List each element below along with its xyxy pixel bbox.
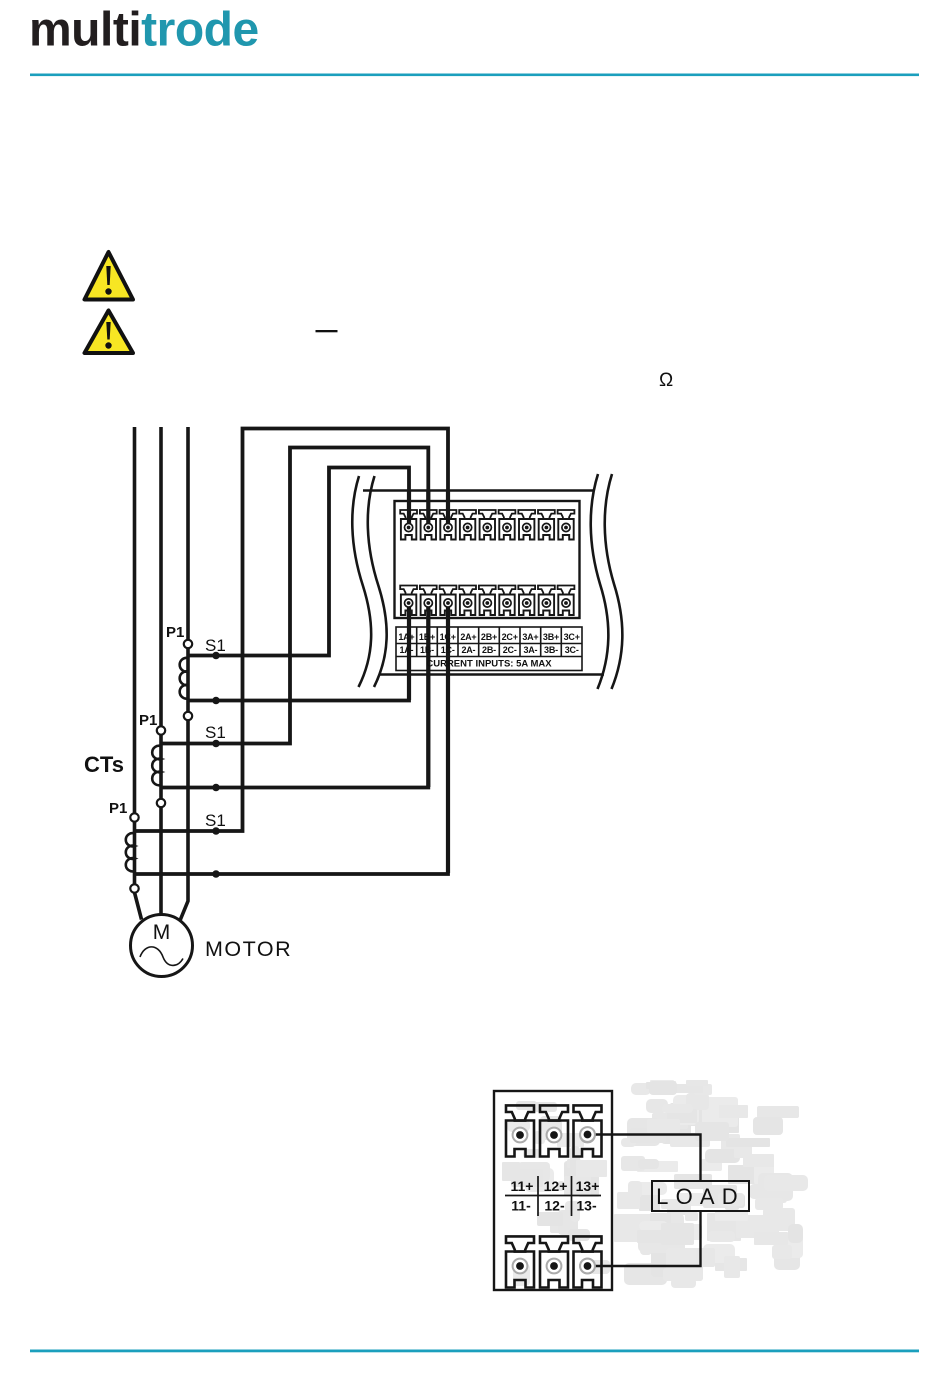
svg-text:P1: P1 xyxy=(109,800,127,817)
CT3 P1 terminal circle xyxy=(130,813,138,821)
svg-text:CURRENT INPUTS: 5A MAX: CURRENT INPUTS: 5A MAX xyxy=(426,659,552,670)
terminal 11+ xyxy=(506,1105,534,1156)
junction S2 of CT3 xyxy=(212,870,220,878)
terminal 11- xyxy=(506,1236,534,1287)
screw of terminal 2A+ xyxy=(464,523,472,531)
terminal 3A+ xyxy=(518,510,535,540)
screw of terminal 3C+ xyxy=(562,523,570,531)
CT2 P1 terminal circle xyxy=(157,726,165,734)
svg-text:2C-: 2C- xyxy=(503,645,517,655)
terminal 12+ xyxy=(540,1105,568,1156)
svg-text:1C+: 1C+ xyxy=(440,632,456,642)
motor sine wave xyxy=(140,947,183,966)
svg-text:3C-: 3C- xyxy=(565,645,579,655)
terminal 3C+ xyxy=(558,510,575,540)
screw of terminal 1B+ xyxy=(424,523,432,531)
terminal 1A+ xyxy=(400,510,417,540)
svg-text:3C+: 3C+ xyxy=(564,632,580,642)
screw of terminal 2B- xyxy=(483,599,491,607)
watermark blobs xyxy=(502,1080,808,1288)
svg-text:11-: 11- xyxy=(511,1198,531,1214)
screw of terminal 2C+ xyxy=(503,523,511,531)
svg-text:1C-: 1C- xyxy=(441,645,455,655)
svg-text:M: M xyxy=(153,921,171,944)
svg-text:3A+: 3A+ xyxy=(522,632,538,642)
screw of terminal 1C+ xyxy=(444,523,452,531)
svg-text:2B-: 2B- xyxy=(482,645,496,655)
svg-text:12+: 12+ xyxy=(544,1178,568,1194)
svg-text:2B+: 2B+ xyxy=(481,632,497,642)
terminal 13- xyxy=(574,1236,602,1287)
svg-text:MOTOR: MOTOR xyxy=(205,937,292,961)
relay label dividers xyxy=(505,1176,601,1216)
svg-text:12-: 12- xyxy=(544,1198,565,1214)
CT3 return wire to 1C- xyxy=(135,603,449,874)
svg-text:3A-: 3A- xyxy=(523,645,537,655)
header rule xyxy=(30,74,919,77)
CT1 coil xyxy=(180,658,188,699)
svg-text:Ω: Ω xyxy=(659,370,673,391)
terminal 3B+ xyxy=(538,510,555,540)
CT2 coil xyxy=(152,746,161,786)
svg-text:multitrode: multitrode xyxy=(29,4,259,57)
CT2 S2 terminal circle xyxy=(157,799,165,807)
wire drops into terminals (over clamps) xyxy=(409,490,448,873)
svg-text:3B-: 3B- xyxy=(544,645,558,655)
svg-text:1B-: 1B- xyxy=(420,645,434,655)
warning icon 2 xyxy=(85,311,134,354)
terminal labels row - xyxy=(399,645,578,655)
CT2 secondary wire to 1B+ xyxy=(161,448,428,744)
CT1 secondary wire to 1A+ xyxy=(188,468,409,656)
phase wire L1 xyxy=(135,427,142,920)
svg-text:2A+: 2A+ xyxy=(460,632,476,642)
screw of terminal 3B- xyxy=(542,599,550,607)
junction S2 of CT1 xyxy=(212,697,220,705)
CT1 S2 terminal circle xyxy=(184,712,192,720)
screw of terminal 1B- xyxy=(424,599,432,607)
motor circle xyxy=(131,915,193,977)
terminal 1B+ xyxy=(420,510,437,540)
terminal labels row + xyxy=(398,632,579,642)
screw of terminal 3A+ xyxy=(523,523,531,531)
terminal 2B+ xyxy=(479,510,496,540)
terminal 2C- xyxy=(499,586,516,616)
svg-text:3B+: 3B+ xyxy=(543,632,559,642)
terminal 2B- xyxy=(479,586,496,616)
terminal 13+ xyxy=(574,1105,602,1156)
svg-text:S1: S1 xyxy=(205,636,226,655)
CT3 S2 terminal circle xyxy=(130,884,138,892)
phase wire L3 xyxy=(180,427,188,921)
terminal 3A- xyxy=(518,586,535,616)
relay terminal strip box xyxy=(494,1091,612,1290)
screw of terminal 3C- xyxy=(562,599,570,607)
svg-text:13-: 13- xyxy=(576,1198,597,1214)
screw of terminal 2A- xyxy=(464,599,472,607)
svg-text:2C+: 2C+ xyxy=(502,632,518,642)
screw 13- redraw xyxy=(580,1259,595,1274)
terminal 1A- xyxy=(400,586,417,616)
terminal 2A- xyxy=(459,586,476,616)
terminal 2A+ xyxy=(459,510,476,540)
svg-text:11+: 11+ xyxy=(511,1178,534,1194)
svg-text:S1: S1 xyxy=(205,811,226,830)
relay labels row + xyxy=(511,1178,600,1194)
CT2 return wire to 1B- xyxy=(161,603,428,788)
screw of terminal 1C- xyxy=(444,599,452,607)
screw of terminal 2C- xyxy=(503,599,511,607)
relay labels row - xyxy=(511,1198,597,1214)
terminal 3C- xyxy=(558,586,575,616)
svg-text:S1: S1 xyxy=(205,723,226,742)
svg-text:1A-: 1A- xyxy=(399,645,413,655)
footer rule xyxy=(30,1350,919,1353)
svg-text:13+: 13+ xyxy=(576,1178,600,1194)
junction S1 of CT2 xyxy=(212,740,220,748)
svg-text:CTs: CTs xyxy=(84,752,124,777)
screw of terminal 3A- xyxy=(523,599,531,607)
screw of terminal 2B+ xyxy=(483,523,491,531)
wire load to 13- xyxy=(588,1211,701,1266)
screw 13+ redraw xyxy=(580,1127,595,1142)
phase wire L2 xyxy=(159,427,163,915)
torn enclosure bottom edge xyxy=(380,673,604,676)
terminal 1C- xyxy=(440,586,457,616)
svg-text:P1: P1 xyxy=(139,712,157,729)
terminal 2C+ xyxy=(499,510,516,540)
screw of terminal 1A- xyxy=(405,599,413,607)
wire 13+ to load xyxy=(588,1135,701,1182)
warning icon 1 xyxy=(85,252,134,300)
terminal strip outer box xyxy=(395,501,580,618)
CT1 return wire to 1A- xyxy=(188,603,409,701)
svg-text:1A+: 1A+ xyxy=(398,632,414,642)
svg-text:LOAD: LOAD xyxy=(656,1184,745,1209)
torn edge wavy lines right xyxy=(591,474,623,689)
torn enclosure top edge xyxy=(363,489,593,492)
CT1 P1 terminal circle xyxy=(184,640,192,648)
CT3 coil xyxy=(126,833,135,871)
screw of terminal 3B+ xyxy=(542,523,550,531)
logo multitrode xyxy=(29,4,259,57)
load box xyxy=(652,1181,749,1211)
svg-text:2A-: 2A- xyxy=(461,645,475,655)
junction S2 of CT2 xyxy=(212,784,220,792)
blank dash xyxy=(316,330,338,332)
CT3 secondary wire to 1C+ xyxy=(135,429,449,832)
screw of terminal 1A+ xyxy=(405,523,413,531)
terminal 1C+ xyxy=(440,510,457,540)
terminal 1B- xyxy=(420,586,437,616)
terminal 3B- xyxy=(538,586,555,616)
junction S1 of CT3 xyxy=(212,827,220,835)
terminal label table xyxy=(396,627,582,671)
terminal 12- xyxy=(540,1236,568,1287)
torn edge wavy lines left xyxy=(352,476,386,687)
svg-text:P1: P1 xyxy=(166,624,184,641)
svg-text:1B+: 1B+ xyxy=(419,632,435,642)
junction S1 of CT1 xyxy=(212,652,220,660)
